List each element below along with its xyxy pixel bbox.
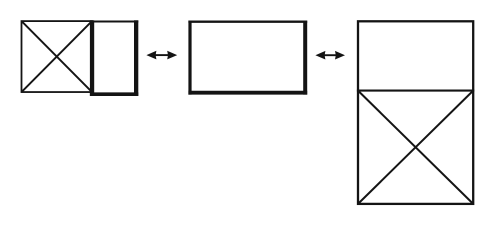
middle window top edge	[188, 21, 307, 23]
middle window right edge	[303, 21, 307, 95]
left double arrow	[146, 51, 177, 60]
right window divider	[357, 90, 474, 92]
middle window bottom edge	[188, 91, 307, 95]
right tall window outline	[358, 21, 473, 204]
left thick window bottom edge	[90, 92, 138, 96]
left thick window right edge	[134, 20, 138, 96]
right lower diagonal backslash	[358, 91, 473, 204]
left component square	[22, 21, 93, 92]
left square diagonal backslash	[22, 21, 93, 92]
right lower diagonal slash	[358, 91, 473, 204]
left square diagonal slash	[22, 21, 93, 92]
left thick window top edge	[90, 20, 138, 22]
middle window left edge	[188, 21, 191, 95]
left thick window left edge	[90, 20, 94, 96]
right double arrow	[315, 51, 345, 60]
